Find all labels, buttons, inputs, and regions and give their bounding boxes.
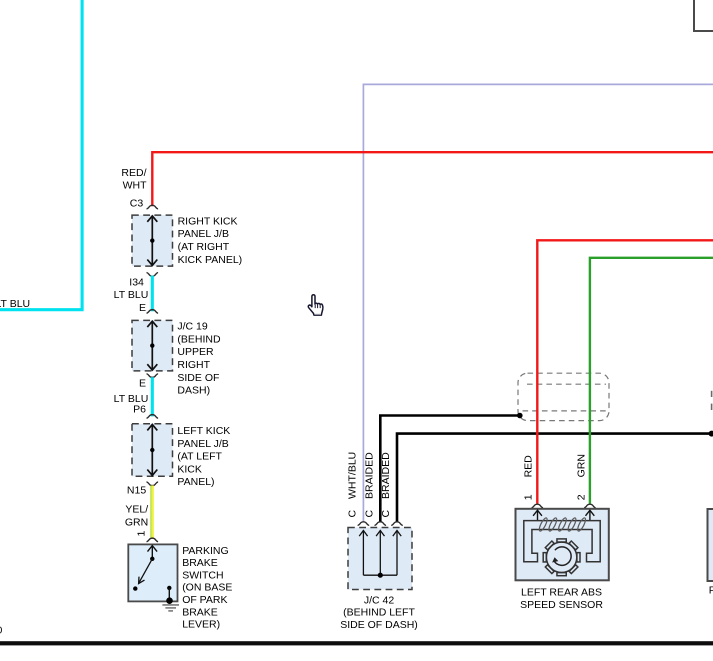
svg-text:RED: RED: [522, 455, 534, 478]
svg-text:1: 1: [522, 494, 534, 500]
shield (braided) dashed cylinder: [518, 373, 609, 420]
wire LT BLU vertical+elbow top-left: [0, 0, 82, 310]
sensor core bracket: [524, 521, 600, 562]
J/C 42 internal arrows and bus: [359, 531, 401, 576]
switch blade with arrowhead: [139, 559, 153, 584]
junction connector J/C 19 box: [132, 320, 173, 371]
connector arc J/C 42 pin 1: [358, 522, 370, 526]
connector arc I34 (cup): [147, 273, 159, 277]
svg-text:LT BLU: LT BLU: [0, 298, 30, 310]
wire BRAIDED B (to right edge): [397, 434, 713, 522]
svg-text:LT BLU: LT BLU: [114, 289, 149, 301]
svg-text:KICK: KICK: [177, 463, 202, 475]
svg-text:C: C: [380, 510, 392, 518]
svg-text:(BEHIND LEFT: (BEHIND LEFT: [343, 607, 415, 619]
shield junction dot: [517, 413, 523, 419]
svg-text:SIDE OF: SIDE OF: [177, 372, 219, 384]
label LEFT KICK PANEL J/B (AT LEFT KICK PANEL): [177, 425, 230, 488]
svg-text:BRAKE: BRAKE: [182, 606, 218, 618]
svg-text:BRAIDED: BRAIDED: [380, 452, 392, 499]
svg-text:LEVER): LEVER): [182, 619, 220, 631]
wire LT BLU segment 2: [151, 377, 154, 416]
svg-text:PANEL J/B: PANEL J/B: [177, 438, 228, 450]
wire RED/WHT main (horizontal top + drop to C3): [152, 152, 713, 206]
label PARKING BRAKE SWITCH (ON BASE OF PARK BRAKE LEVER): [182, 545, 232, 631]
arrow double-headed inside J/C 19: [147, 321, 157, 370]
svg-text:P6: P6: [133, 404, 146, 416]
junction dot at right edge: [709, 431, 713, 437]
svg-text:(AT LEFT: (AT LEFT: [177, 451, 222, 463]
connector arc sensor pin 1: [532, 504, 544, 508]
svg-text:PANEL): PANEL): [177, 476, 214, 488]
component PARKING BRAKE SWITCH box: [128, 544, 177, 601]
sensor pin arrows: [533, 510, 594, 520]
label J/C 19 (BEHIND UPPER RIGHT SIDE OF DASH): [177, 321, 221, 397]
UI panel corner top-right: [694, 0, 713, 31]
wire YEL/GRN segment: [151, 485, 153, 538]
ground symbol: [162, 605, 179, 611]
cursor hand pointer: [308, 295, 323, 315]
svg-text:J/C 19: J/C 19: [177, 321, 208, 333]
sensor rotation arrow: [554, 547, 571, 565]
switch lower-left contact dot: [133, 586, 137, 590]
connector arc P6: [147, 415, 159, 419]
svg-text:E: E: [139, 378, 146, 390]
svg-text:(BEHIND: (BEHIND: [177, 333, 221, 345]
node dot J/B 1: [150, 238, 154, 242]
svg-text:PANEL J/B: PANEL J/B: [178, 228, 229, 240]
svg-text:WHT: WHT: [123, 180, 147, 192]
svg-text:0: 0: [0, 625, 3, 637]
svg-text:SPEED SENSOR: SPEED SENSOR: [520, 599, 603, 611]
component partial box at right edge (RIGHT REAR ABS SPEED SENSOR): [708, 509, 713, 581]
svg-text:C3: C3: [130, 197, 144, 209]
svg-text:DASH): DASH): [177, 385, 210, 397]
svg-text:GRN: GRN: [125, 516, 148, 528]
svg-text:J/C 42: J/C 42: [364, 594, 395, 606]
connector arc J/C 42 pin 2: [375, 522, 387, 526]
svg-text:RIGHT: RIGHT: [177, 359, 210, 371]
svg-text:OF PARK: OF PARK: [182, 594, 227, 606]
svg-text:PARKING: PARKING: [182, 545, 228, 557]
switch pin arrow: [148, 546, 158, 559]
wire RED to sensor: [537, 240, 713, 503]
wire GRN to sensor: [590, 258, 713, 504]
svg-text:UPPER: UPPER: [177, 346, 214, 358]
wire BRAIDED A (to shield): [380, 416, 520, 522]
wire to ground inside switch: [168, 588, 170, 601]
svg-text:BRAKE: BRAKE: [182, 557, 218, 569]
svg-text:I34: I34: [129, 276, 144, 288]
connector arc C3: [147, 205, 159, 209]
svg-text:LEFT KICK: LEFT KICK: [177, 425, 230, 437]
switch common contact dot: [150, 557, 154, 561]
connector arc parking brake switch: [147, 538, 159, 542]
ground node dot: [166, 597, 173, 604]
node dot LEFT KICK J/B: [150, 448, 154, 452]
svg-text:(ON BASE: (ON BASE: [182, 582, 232, 594]
J/C 42 bus node dot: [378, 573, 383, 578]
connector arc E: [147, 310, 159, 314]
svg-text:E: E: [139, 302, 146, 314]
component LEFT REAR ABS SPEED SENSOR box: [516, 509, 609, 581]
connector arc J/C 42 pin 3: [391, 522, 403, 526]
label RIGHT KICK PANEL J/B (AT RIGHT KICK PANEL): [178, 215, 243, 266]
connector arc N15 (cup): [147, 482, 159, 486]
svg-text:RIGHT KICK: RIGHT KICK: [178, 215, 238, 227]
svg-text:KICK PANEL): KICK PANEL): [178, 254, 243, 266]
separator black bar bottom: [0, 641, 713, 645]
junction connector J/C 42 box: [348, 528, 412, 590]
junction block RIGHT KICK PANEL J/B box: [132, 215, 173, 266]
wire LT BLU segment 1: [151, 276, 154, 312]
svg-text:RED/: RED/: [121, 167, 146, 179]
svg-text:SWITCH: SWITCH: [182, 569, 223, 581]
sensor coil: [538, 517, 587, 532]
svg-text:GRN: GRN: [575, 454, 587, 477]
svg-text:2: 2: [575, 494, 587, 500]
wire WHT/BLU (purple) from top to J/C 42: [363, 84, 713, 521]
svg-text:F: F: [709, 585, 713, 597]
svg-text:C: C: [347, 510, 359, 518]
svg-text:YEL/: YEL/: [125, 504, 148, 516]
arrow double-headed inside LEFT KICK J/B: [147, 425, 157, 476]
sensor tone ring gear: [543, 539, 580, 576]
label J/C 42 (BEHIND LEFT SIDE OF DASH): [340, 594, 418, 631]
svg-text:SIDE OF DASH): SIDE OF DASH): [340, 619, 418, 631]
partial shield at right edge: [711, 391, 713, 410]
svg-text:N15: N15: [127, 484, 146, 496]
svg-text:WHT/BLU: WHT/BLU: [347, 452, 359, 499]
svg-text:1: 1: [136, 531, 148, 537]
arrow double-headed inside J/B 1: [147, 216, 157, 266]
svg-text:C: C: [364, 510, 376, 518]
switch right contact dot: [167, 586, 171, 590]
svg-text:LEFT REAR ABS: LEFT REAR ABS: [521, 587, 602, 599]
junction block LEFT KICK PANEL J/B box: [132, 424, 173, 477]
connector arc E lower (cup): [147, 374, 159, 378]
connector arc sensor pin 2: [584, 504, 596, 508]
wire YEL/GRN green tracer stripe: [150, 485, 152, 538]
node dot J/C 19: [150, 343, 154, 347]
label LEFT REAR ABS SPEED SENSOR: [520, 587, 603, 611]
svg-text:(AT RIGHT: (AT RIGHT: [178, 241, 230, 253]
svg-text:BRAIDED: BRAIDED: [364, 452, 376, 499]
